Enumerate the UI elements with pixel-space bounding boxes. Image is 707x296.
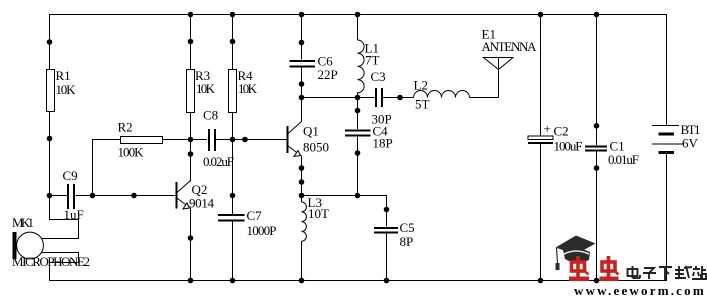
svg-text:C3: C3 (371, 69, 386, 84)
svg-text:8P: 8P (400, 234, 414, 249)
svg-text:C9: C9 (63, 168, 78, 183)
svg-text:C8: C8 (203, 108, 218, 123)
svg-text:5T: 5T (415, 97, 430, 112)
svg-text:C2: C2 (554, 124, 569, 139)
svg-text:R1: R1 (56, 68, 71, 83)
svg-text:0.01uF: 0.01uF (608, 152, 639, 167)
svg-text:10K: 10K (196, 81, 216, 96)
svg-text:8050: 8050 (303, 140, 329, 155)
svg-text:22P: 22P (318, 67, 338, 82)
svg-text:6V: 6V (682, 136, 699, 151)
svg-text:C5: C5 (400, 220, 415, 235)
svg-text:100uF: 100uF (554, 139, 583, 154)
svg-text:MICROPHONE2: MICROPHONE2 (12, 254, 90, 269)
svg-text:0.02uF: 0.02uF (203, 154, 234, 169)
svg-text:C7: C7 (247, 208, 263, 223)
svg-text:10T: 10T (308, 206, 329, 221)
svg-text:L2: L2 (414, 78, 428, 93)
svg-text:10K: 10K (56, 82, 77, 97)
svg-text:100K: 100K (118, 145, 145, 160)
svg-text:10K: 10K (238, 81, 258, 96)
svg-text:+: + (544, 121, 551, 136)
svg-text:www.eeworm.com: www.eeworm.com (574, 283, 706, 296)
svg-text:1000P: 1000P (247, 223, 277, 238)
svg-text:R2: R2 (118, 120, 133, 135)
svg-text:Q1: Q1 (303, 124, 319, 139)
svg-text:ANTENNA: ANTENNA (482, 39, 538, 54)
svg-text:7T: 7T (365, 53, 380, 68)
svg-text:18P: 18P (373, 136, 393, 151)
svg-text:9014: 9014 (189, 196, 215, 211)
svg-text:1uF: 1uF (64, 207, 84, 222)
svg-text:MK1: MK1 (12, 215, 34, 230)
